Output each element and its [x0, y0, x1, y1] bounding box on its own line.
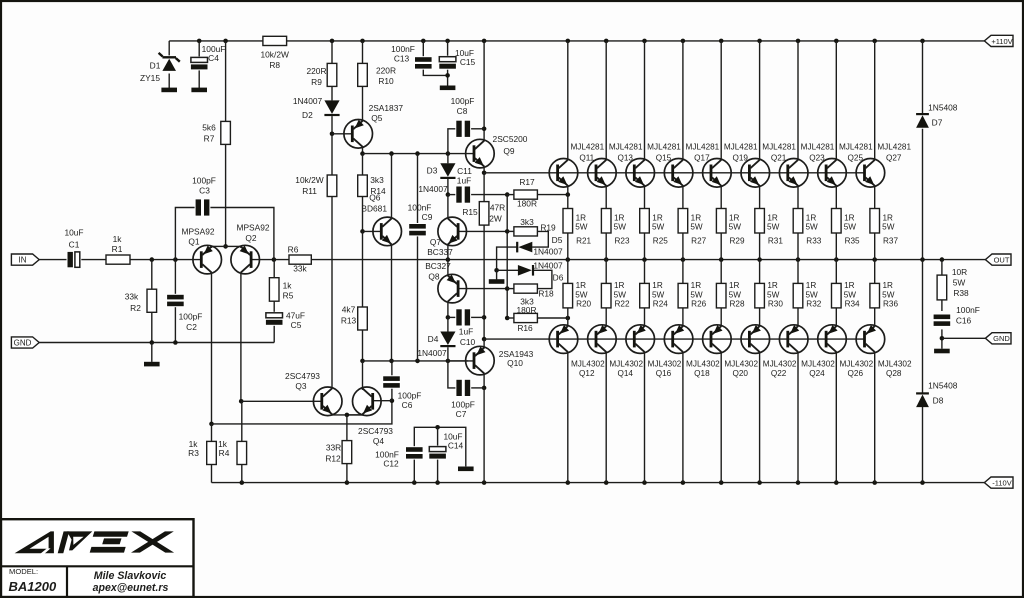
- svg-text:3k3: 3k3: [370, 175, 384, 185]
- svg-text:R29: R29: [729, 237, 744, 246]
- svg-text:R37: R37: [883, 237, 898, 246]
- svg-text:R20: R20: [576, 300, 591, 309]
- svg-text:R8: R8: [269, 60, 280, 70]
- resistor R8 10k/2W body: [263, 36, 287, 45]
- node input C2/C3 junction: [173, 257, 178, 262]
- svg-text:MJL4281: MJL4281: [570, 143, 604, 152]
- wire Q2 emitter diag ext: [240, 246, 242, 248]
- svg-text:C7: C7: [456, 409, 467, 419]
- node bottom rail / Q22 collector: [757, 480, 762, 485]
- node top rail / Q21 collector: [757, 39, 762, 44]
- wire R26 to Q18 emitter: [682, 308, 684, 326]
- svg-text:D1: D1: [150, 60, 161, 70]
- svg-text:R7: R7: [204, 133, 215, 143]
- svg-text:1N5408: 1N5408: [928, 381, 958, 391]
- wire output line to R24: [644, 260, 646, 284]
- wire Q7 emitter to output line: [447, 244, 449, 259]
- node top rail / Q9 collector: [482, 39, 487, 44]
- svg-text:33k: 33k: [125, 291, 139, 301]
- wire R14 top: [362, 154, 364, 175]
- svg-text:D7: D7: [932, 118, 943, 128]
- node output line / emitter resistor column 2: [604, 257, 609, 262]
- node bottom base line start: [482, 337, 487, 342]
- svg-text:R26: R26: [691, 300, 706, 309]
- svg-text:C9: C9: [422, 212, 433, 222]
- wire Q10 base: [448, 360, 474, 362]
- diode D8 1N5408: [916, 392, 929, 394]
- svg-text:5W: 5W: [805, 291, 818, 300]
- svg-text:R4: R4: [219, 448, 230, 458]
- node R16 left: [505, 316, 510, 321]
- transistor Q25 symbol internals: [825, 165, 828, 182]
- wire Q28 collector to bottom rail: [874, 352, 876, 483]
- svg-text:Q25: Q25: [848, 154, 864, 163]
- svg-text:R35: R35: [845, 237, 860, 246]
- resistor R38 10R 5W body: [937, 275, 947, 300]
- wire lower bias line: [363, 360, 469, 362]
- svg-text:2SA1837: 2SA1837: [369, 103, 404, 113]
- svg-text:MODEL:: MODEL:: [9, 567, 38, 576]
- wire Q21 emitter to R31: [759, 186, 761, 209]
- svg-text:1N4007: 1N4007: [533, 260, 563, 270]
- svg-text:100pF: 100pF: [192, 175, 216, 185]
- svg-text:1R: 1R: [652, 214, 663, 223]
- diode D3 1N4007: [440, 163, 455, 177]
- svg-text:2W: 2W: [489, 213, 502, 223]
- svg-text:100pF: 100pF: [451, 96, 475, 106]
- wire R36 to Q28 emitter: [874, 308, 876, 326]
- wire R30 to Q22 emitter: [759, 308, 761, 326]
- svg-text:MJL4302: MJL4302: [801, 359, 835, 368]
- svg-text:GND: GND: [993, 334, 1010, 343]
- node top rail / Q25 collector: [834, 39, 839, 44]
- wire Q10 emitter: [483, 339, 485, 347]
- ground bar C12 C14: [458, 467, 474, 472]
- wire C11 right lead: [469, 194, 507, 196]
- svg-text:Q26: Q26: [848, 369, 864, 378]
- wire output line to R20: [567, 260, 569, 284]
- wire R14 to Q6 base node: [362, 197, 364, 232]
- svg-text:BC327: BC327: [425, 261, 451, 271]
- wire R38 to C16: [941, 300, 943, 311]
- wire R17 right lead: [537, 194, 567, 196]
- svg-text:+110V: +110V: [991, 37, 1012, 46]
- svg-text:R3: R3: [188, 448, 199, 458]
- svg-text:5W: 5W: [805, 223, 818, 232]
- wire Q8 collector: [447, 302, 449, 318]
- wire C4 bottom lead: [198, 70, 200, 88]
- resistor R35 1R 5W body: [832, 209, 842, 234]
- wire Q12 collector to bottom rail: [567, 352, 569, 483]
- node C13 C15 ground join: [445, 73, 450, 78]
- wire R2 pulldown: [151, 260, 153, 290]
- node top rail / Q27 collector: [872, 39, 877, 44]
- wire R4 lead: [241, 401, 243, 441]
- transistor Q22 MJL4302 body: [741, 325, 770, 354]
- wire Q18 collector to bottom rail: [682, 352, 684, 483]
- svg-text:1R: 1R: [691, 281, 702, 290]
- wire D6 anode lead: [497, 269, 519, 271]
- wire D3 top lead: [447, 154, 449, 164]
- wire C8 right lead: [469, 128, 484, 130]
- svg-text:C8: C8: [457, 106, 468, 116]
- wire Q7 collector: [447, 195, 449, 219]
- wire Q27 emitter to R37: [874, 186, 876, 209]
- node bottom rail / Q18 collector: [681, 480, 686, 485]
- wire R2 to ground line: [151, 312, 153, 342]
- transistor Q8 symbol internals: [457, 280, 460, 297]
- resistor R31 1R 5W body: [755, 209, 765, 234]
- transistor Q6 symbol internals: [380, 223, 383, 240]
- svg-text:Q8: Q8: [428, 271, 440, 281]
- node bottom rail / C14: [435, 480, 440, 485]
- node Q5 collector: [360, 151, 365, 156]
- diode D2 1N4007: [324, 100, 339, 114]
- capacitor C2 100pF: [166, 294, 185, 307]
- node bottom rail / Q26 collector: [834, 480, 839, 485]
- resistor R37 1R 5W body: [870, 209, 880, 234]
- resistor R11 10k/2W body: [327, 175, 337, 197]
- svg-text:100pF: 100pF: [451, 399, 475, 409]
- svg-text:MJL4302: MJL4302: [878, 359, 912, 368]
- node R17/R19 left node: [505, 192, 510, 197]
- svg-text:2SC4793: 2SC4793: [285, 371, 320, 381]
- svg-text:1R: 1R: [576, 214, 587, 223]
- svg-text:R22: R22: [614, 300, 629, 309]
- wire R38 top lead: [941, 260, 943, 276]
- wire D7 to output line: [922, 129, 924, 260]
- wire Q6 emitter down: [391, 245, 393, 361]
- svg-text:5W: 5W: [652, 223, 665, 232]
- node Q9 collector / C8: [482, 127, 487, 132]
- svg-text:1R: 1R: [882, 281, 893, 290]
- svg-text:-110V: -110V: [992, 479, 1011, 488]
- resistor R17 180R body: [514, 190, 538, 199]
- wire R12 to bottom rail: [346, 464, 348, 483]
- transistor Q18 MJL4302 body: [664, 325, 693, 354]
- svg-text:100nF: 100nF: [956, 305, 980, 315]
- svg-text:33k: 33k: [293, 263, 307, 273]
- node emitter tail junction: [223, 244, 228, 249]
- wire Q2 collector down: [240, 273, 242, 402]
- svg-text:BA1200: BA1200: [9, 579, 57, 594]
- svg-text:MPSA92: MPSA92: [236, 222, 269, 232]
- svg-text:R1: R1: [112, 244, 123, 254]
- svg-text:C10: C10: [460, 337, 476, 347]
- wire VAS line: [363, 153, 475, 155]
- svg-text:33R: 33R: [326, 442, 341, 452]
- wire left GND line: [39, 342, 274, 344]
- transistor Q10 2SA1943 body: [466, 346, 495, 375]
- transistor Q16 symbol internals: [633, 331, 636, 348]
- wire C12 top lead: [414, 427, 466, 466]
- transistor Q2 MPSA92 body: [231, 245, 260, 274]
- svg-text:R36: R36: [883, 300, 898, 309]
- svg-text:1R: 1R: [729, 281, 740, 290]
- resistor R24 1R 5W body: [640, 283, 650, 308]
- svg-text:MJL4302: MJL4302: [648, 359, 682, 368]
- wire Q23 emitter to R33: [797, 186, 799, 209]
- svg-text:C12: C12: [383, 458, 399, 468]
- wire D3 to C11 node: [447, 179, 449, 195]
- svg-text:5k6: 5k6: [202, 122, 216, 132]
- wire output line to R30: [759, 260, 761, 284]
- wire C16 to GND node: [941, 329, 943, 348]
- transistor Q20 MJL4302 body: [703, 325, 732, 354]
- wire R15 top lead: [483, 173, 485, 202]
- wire Q17 collector to rail: [682, 41, 684, 160]
- transistor Q22 symbol internals: [748, 331, 751, 348]
- svg-text:5W: 5W: [729, 291, 742, 300]
- node top rail / C15: [445, 39, 450, 44]
- wire Q15 emitter to R25: [644, 186, 646, 209]
- capacitor C14 10uF: [428, 446, 447, 460]
- wire R3 to bottom rail: [211, 465, 213, 483]
- svg-text:5W: 5W: [614, 223, 627, 232]
- wire D6 to R18: [534, 270, 552, 288]
- wire Q15 collector to rail: [644, 41, 646, 160]
- wire Q4 base: [373, 400, 392, 402]
- wire R31 to output line: [759, 233, 761, 260]
- wire Q1 emitter link: [212, 245, 226, 247]
- svg-text:D6: D6: [553, 272, 564, 282]
- wire D5 cathode lead: [497, 247, 517, 270]
- resistor R1 1k body: [106, 255, 130, 264]
- svg-text:10k/2W: 10k/2W: [260, 49, 288, 59]
- svg-text:R28: R28: [729, 300, 744, 309]
- resistor R25 1R 5W body: [640, 209, 650, 234]
- wire R14 node down to R13: [362, 231, 364, 307]
- node bottom rail / Q16 collector: [642, 480, 647, 485]
- svg-text:R17: R17: [519, 177, 535, 187]
- svg-text:Q18: Q18: [694, 369, 710, 378]
- svg-text:R25: R25: [653, 237, 668, 246]
- node top rail / C13: [421, 39, 426, 44]
- wire C10 left lead: [448, 316, 458, 318]
- resistor R19 3k3 body: [514, 227, 538, 236]
- transistor Q1 symbol internals: [200, 251, 203, 268]
- wire R25 to output line: [644, 233, 646, 260]
- svg-text:10R: 10R: [952, 267, 967, 277]
- transistor Q21 MJL4281 body: [741, 159, 770, 188]
- wire R12 top lead: [346, 415, 348, 441]
- svg-text:Q28: Q28: [886, 369, 902, 378]
- svg-text:OUT: OUT: [994, 256, 1010, 265]
- capacitor C3 100pF: [195, 198, 211, 216]
- wire R9 top: [331, 41, 333, 64]
- resistor R28 1R 5W body: [716, 283, 726, 308]
- node C11 / Q7 collector node: [446, 192, 451, 197]
- resistor R29 1R 5W body: [716, 209, 726, 234]
- resistor R32 1R 5W body: [793, 283, 803, 308]
- terminal +110V: [984, 35, 1013, 46]
- svg-text:180R: 180R: [517, 198, 537, 208]
- diode D7 1N5408: [916, 113, 929, 115]
- capacitor C13 100nF: [414, 56, 433, 69]
- resistor R27 1R 5W body: [678, 209, 688, 234]
- node VAS line / Q6 collector: [389, 151, 394, 156]
- svg-text:1R: 1R: [729, 214, 740, 223]
- svg-text:3k3: 3k3: [520, 217, 534, 227]
- svg-text:BD681: BD681: [361, 203, 387, 213]
- resistor R9 220R body: [327, 63, 337, 86]
- transistor Q19 symbol internals: [710, 165, 713, 182]
- ground bar C4: [191, 88, 207, 93]
- transistor Q18 symbol internals: [671, 331, 674, 348]
- wire C7 right lead: [469, 387, 484, 389]
- transistor Q3 symbol internals: [320, 393, 323, 410]
- node top rail / R9: [330, 39, 335, 44]
- node output line / D7 D8: [920, 257, 925, 262]
- svg-text:1uF: 1uF: [457, 175, 471, 185]
- wire +110V top rail: [169, 40, 986, 42]
- svg-text:1R: 1R: [767, 281, 778, 290]
- title block box: [1, 519, 194, 597]
- wire R24 to Q16 emitter: [644, 308, 646, 326]
- transistor Q10 symbol internals: [473, 352, 476, 369]
- terminal GND right: [985, 333, 1011, 344]
- svg-text:Q5: Q5: [371, 113, 383, 123]
- svg-text:R24: R24: [653, 300, 668, 309]
- wire C6 bottom leg: [391, 388, 393, 401]
- capacitor C5 47uF: [265, 312, 284, 326]
- wire R37 to output line: [874, 233, 876, 260]
- wire R13 line to Q4 collector: [362, 361, 364, 390]
- capacitor C7 100pF: [455, 379, 471, 397]
- wire C5 bottom to ground line: [273, 325, 275, 342]
- transistor Q8 BC327 body: [438, 274, 467, 303]
- node R18 left: [505, 286, 510, 291]
- svg-text:D8: D8: [933, 395, 944, 405]
- node top rail / Q15 collector: [642, 39, 647, 44]
- svg-text:C13: C13: [394, 53, 410, 63]
- wire Q10 collector to bottom rail: [483, 388, 485, 483]
- transistor Q7 BC337 body: [438, 217, 467, 246]
- svg-text:5W: 5W: [767, 291, 780, 300]
- svg-text:C4: C4: [208, 53, 219, 63]
- node top rail / Q19 collector: [719, 39, 724, 44]
- svg-text:1R: 1R: [614, 214, 625, 223]
- wire R19 to D5: [532, 231, 548, 247]
- svg-text:Q3: Q3: [295, 381, 307, 391]
- wire output line to R28: [720, 260, 722, 284]
- wire Q10 collector: [483, 374, 485, 388]
- svg-text:R38: R38: [953, 288, 969, 298]
- svg-text:C1: C1: [69, 239, 80, 249]
- node bottom rail / Q28 collector: [872, 480, 877, 485]
- capacitor C9 100nF: [408, 223, 427, 236]
- wire C2 tap: [174, 260, 176, 296]
- svg-text:MJL4281: MJL4281: [801, 143, 835, 152]
- wire R5 to C5: [273, 301, 275, 312]
- svg-text:Q13: Q13: [617, 154, 633, 163]
- wire Q3 emitter link: [332, 413, 363, 416]
- capacitor C16 100nF: [933, 314, 952, 327]
- capacitor C4 100uF: [190, 56, 209, 70]
- wire Q2 emitter link: [226, 245, 241, 247]
- node top rail / Q17 collector: [681, 39, 686, 44]
- wire Q20 collector to bottom rail: [720, 352, 722, 483]
- wire D4 to bias line: [447, 347, 449, 361]
- wire C3 right leg: [209, 208, 274, 260]
- node output line / emitter resistor column 7: [796, 257, 801, 262]
- wire Q4 collector ext: [362, 388, 364, 390]
- svg-text:Q21: Q21: [771, 154, 787, 163]
- node bottom rail / D8: [920, 480, 925, 485]
- wire R17 left lead: [507, 194, 514, 196]
- transistor Q23 symbol internals: [786, 165, 789, 182]
- capacitor C1 10uF input: [67, 251, 82, 268]
- wire ground stub: [151, 343, 153, 362]
- node top rail / Q13 collector: [604, 39, 609, 44]
- svg-text:Q19: Q19: [732, 154, 748, 163]
- svg-text:1N5408: 1N5408: [928, 103, 958, 113]
- svg-text:Q17: Q17: [694, 154, 710, 163]
- wire R21 to output line: [567, 233, 569, 260]
- node bottom rail / Q20 collector: [719, 480, 724, 485]
- wire input line IN to Q1 base: [39, 259, 201, 261]
- wire R29 to output line: [720, 233, 722, 260]
- svg-text:D4: D4: [428, 334, 439, 344]
- wire R32 to Q24 emitter: [797, 308, 799, 326]
- wire ground stub D5 D6: [496, 270, 498, 279]
- svg-text:R2: R2: [130, 303, 141, 313]
- svg-text:1R: 1R: [691, 214, 702, 223]
- svg-text:MJL4281: MJL4281: [839, 143, 873, 152]
- svg-text:MJL4281: MJL4281: [724, 143, 758, 152]
- node Q6 base junction: [360, 229, 365, 234]
- node Q12 emitter / R16: [566, 316, 571, 321]
- wire Q19 collector to rail: [720, 41, 722, 160]
- resistor R26 1R 5W body: [678, 283, 688, 308]
- wire R17-R19-R18-R16 vertical: [506, 195, 508, 318]
- svg-text:2SC5200: 2SC5200: [493, 134, 528, 144]
- svg-text:C5: C5: [291, 320, 302, 330]
- node top rail / Q23 collector: [796, 39, 801, 44]
- wire R15 to C10 node: [483, 225, 485, 339]
- wire R22 to Q14 emitter: [605, 308, 607, 326]
- svg-text:Q23: Q23: [809, 154, 825, 163]
- svg-text:1R: 1R: [806, 281, 817, 290]
- svg-text:Q20: Q20: [732, 369, 748, 378]
- svg-text:MJL4281: MJL4281: [762, 143, 796, 152]
- terminal GND left: [11, 337, 39, 348]
- transistor Q16 MJL4302 body: [626, 325, 655, 354]
- node output line / emitter resistor column 3: [642, 257, 647, 262]
- transistor Q14 MJL4302 body: [588, 325, 617, 354]
- svg-text:R15: R15: [462, 207, 478, 217]
- node output line / emitter resistor column 4: [681, 257, 686, 262]
- transistor Q3 2SC4793 body: [313, 387, 342, 416]
- transistor Q26 symbol internals: [825, 331, 828, 348]
- svg-text:R32: R32: [806, 300, 821, 309]
- capacitor C11 1uF: [455, 186, 471, 204]
- node top rail / C4: [197, 39, 202, 44]
- wire C7 left leg: [448, 361, 458, 388]
- svg-text:MJL4302: MJL4302: [609, 359, 643, 368]
- resistor R21 1R 5W body: [563, 209, 573, 234]
- svg-text:Q2: Q2: [245, 233, 257, 243]
- resistor R30 1R 5W body: [755, 283, 765, 308]
- transistor Q13 symbol internals: [595, 165, 598, 182]
- svg-text:1R: 1R: [806, 214, 817, 223]
- node bottom rail / Q24 collector: [796, 480, 801, 485]
- resistor R15 47R 2W body: [479, 202, 489, 226]
- svg-text:5W: 5W: [729, 223, 742, 232]
- svg-text:5W: 5W: [690, 223, 703, 232]
- node VAS line / C9: [415, 151, 420, 156]
- svg-text:C15: C15: [460, 57, 476, 67]
